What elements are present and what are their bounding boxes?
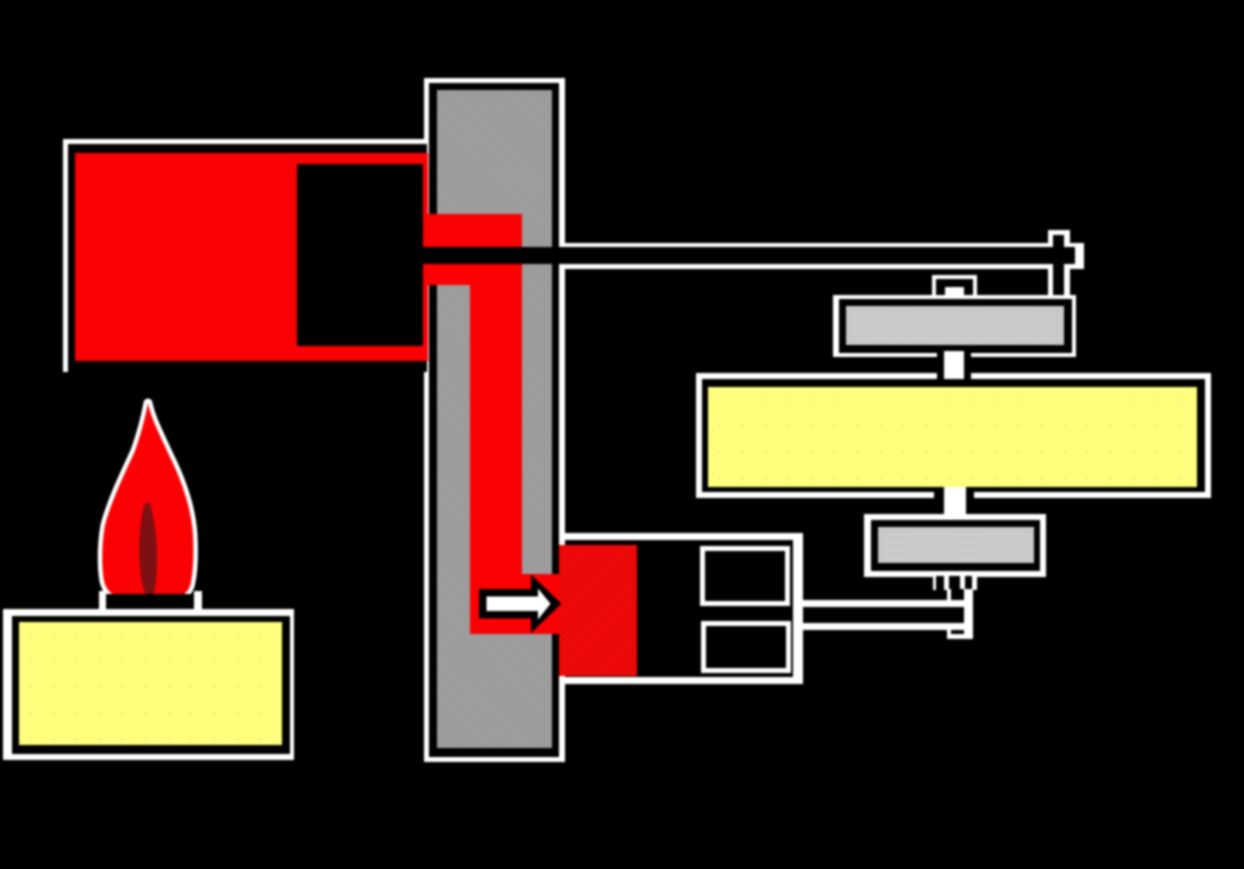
lamp wick right white edge [194,591,202,616]
yoke frame right border [793,533,803,684]
lower axle stub black wall 3 [965,576,972,590]
upper red steam passage [423,214,522,247]
lower axle stub white base [933,576,977,590]
column white outline [424,78,565,763]
lower axle right wall [966,490,974,522]
axle top stub white window [945,287,964,301]
bottom crank pin (black) [951,589,964,634]
lower crank disc black border [871,520,1040,571]
yoke connecting rod white outline [802,600,964,629]
column gray body [437,90,552,748]
yoke frame bottom border [559,677,803,684]
yoke lower window black [706,626,787,668]
lower red steam passage [423,264,522,285]
power piston (black) [297,164,423,347]
vertical red steam channel [470,284,522,574]
yoke upper window white border [700,546,791,606]
steam flow arrow [470,565,570,643]
top crank pin (black) [1053,235,1065,297]
yoke upper window black [705,551,786,601]
lower axle left wall [934,490,944,522]
yoke connecting rod (black) [802,607,964,623]
yoke frame top border [559,533,803,540]
lamp base black border [12,616,290,754]
boiler black margin [68,144,428,373]
flywheel bar yellow face [708,387,1197,487]
lamp base white outline [3,609,295,760]
flame red body with white outline [102,403,193,595]
arrow black outline [479,575,562,634]
lower crank disc gray face [878,527,1034,563]
axle top stub black [936,279,973,301]
lower axle stub black wall 1 [936,576,944,590]
upper axle white core [944,351,964,389]
lower axle white core [944,487,966,521]
column black border [429,83,560,758]
red transfer block at channel bottom [470,574,560,634]
spirit lamp flame [85,385,210,600]
upper axle left wall [937,351,944,389]
lamp wick left white edge [99,591,106,616]
boiler red steam chamber [75,153,428,362]
flywheel bar white outline [696,373,1211,498]
arrow white body [487,589,551,620]
piston rod white outline [563,243,1084,269]
lamp wick (black) [106,594,195,616]
lamp base yellow body [19,622,282,745]
lower crank disc white outline [864,514,1046,577]
upper axle right wall [964,351,972,389]
top crank pin white outline [1048,230,1070,297]
yoke lower window white border [701,621,792,673]
upper crank disc black border [839,299,1072,353]
boiler white outline [63,139,427,372]
upper crank disc white outline [833,295,1077,358]
flywheel bar black border [702,379,1205,492]
piston rod / slot (black) [423,247,1075,264]
displacer piston red box [559,545,637,676]
upper crank disc gray face [846,306,1064,345]
flame dark core [139,503,157,595]
axle top stub white outline [932,275,977,301]
lower axle stub black wall 2 [949,576,961,590]
bottom crank pin white outline [947,589,973,639]
